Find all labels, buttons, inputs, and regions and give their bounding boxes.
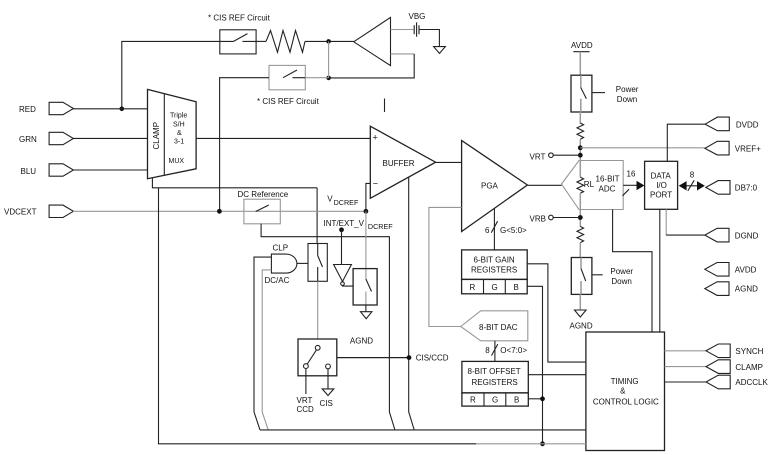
svg-text:O<7:0>: O<7:0>: [500, 346, 527, 355]
ground arrow: AGND (int/ext): [361, 312, 372, 319]
wire: RED to mux: [73, 108, 148, 110]
switch S4 blade: [318, 256, 323, 268]
svg-text:8: 8: [690, 170, 695, 179]
pin tag CLAMP: [706, 360, 730, 374]
register block: 6-BIT GAIN REGISTERS: [462, 250, 528, 280]
wire: R2 to VRT node (gray): [579, 139, 581, 177]
svg-text:DB7:0: DB7:0: [735, 183, 758, 192]
wire: bottom bus A: [260, 429, 586, 431]
svg-text:GRN: GRN: [19, 135, 37, 144]
svg-text:* CIS REF Circuit: * CIS REF Circuit: [257, 97, 320, 106]
inverter U3 (points down): [334, 265, 352, 282]
ground arrow: CIS: [322, 389, 334, 396]
wire: ADC bottom to timing logic: [613, 210, 652, 333]
svg-text:Power: Power: [610, 267, 633, 276]
node: VRT dot: [578, 153, 583, 158]
svg-text:8-BIT DAC: 8-BIT DAC: [479, 323, 518, 332]
wire: node A to node B (gray vertical): [328, 41, 330, 78]
svg-text:B: B: [514, 395, 519, 404]
wire: S2 right lead to node B (gray): [305, 77, 328, 79]
svg-text:16: 16: [627, 169, 636, 178]
svg-text:PORT: PORT: [650, 190, 672, 199]
input pin tag VDCEXT: [49, 205, 73, 217]
wire: VRB circle to chain: [553, 217, 580, 219]
wire: ADCCLK: [665, 381, 707, 383]
wire: ADC output to data port: [623, 184, 637, 186]
svg-text:RED: RED: [19, 105, 36, 114]
block: DATA I/O PORT: [645, 161, 678, 209]
svg-text:DVDD: DVDD: [736, 120, 759, 129]
wire: S1 to resistor R1: [256, 40, 266, 42]
pin tag SYNCH: [706, 344, 730, 358]
node: VRB dot: [578, 215, 583, 220]
wire: VDCEXT through DC ref box (gray): [244, 210, 366, 212]
node: CIS/CCD junction dot: [407, 355, 412, 360]
svg-text:R: R: [470, 283, 476, 292]
svg-text:REGISTERS: REGISTERS: [471, 266, 517, 275]
svg-text:VREF+: VREF+: [735, 144, 761, 153]
register cells R G B (offset): [462, 393, 528, 406]
wire: S5 to AGND arrow: [365, 305, 367, 312]
pin tag DVDD: [705, 117, 729, 131]
svg-text:6-BIT GAIN: 6-BIT GAIN: [474, 256, 515, 265]
switch S8 blade: [581, 269, 586, 282]
bus tick: 8 (DB): [688, 180, 694, 191]
AND gate U4 (CLP gate): [271, 254, 297, 273]
svg-text:TIMING: TIMING: [611, 377, 639, 386]
wire: INT/EXT down to inverter: [341, 230, 343, 265]
svg-text:6: 6: [485, 226, 490, 235]
wire: data port DGND pin (gray drop): [665, 209, 667, 235]
switch S7 control stub: [592, 92, 605, 94]
block: TIMING & CONTROL LOGIC: [586, 332, 665, 451]
svg-text:−: −: [373, 179, 378, 189]
switch S7 blade: [581, 87, 587, 98]
svg-text:BUFFER: BUFFER: [383, 159, 415, 168]
svg-text:AVDD: AVDD: [735, 265, 757, 274]
svg-text:Power: Power: [616, 85, 639, 94]
svg-text:AGND: AGND: [350, 336, 373, 345]
switch S8 box: Power Down (bottom): [571, 258, 592, 295]
switch S7 internals: [580, 75, 582, 112]
node A: junction dot at VBG amp input: [326, 39, 331, 44]
svg-text:DCREF: DCREF: [334, 198, 359, 207]
svg-text:Down: Down: [617, 95, 637, 104]
wire: S6 right terminal to CIS arrow: [327, 369, 329, 389]
bidirectional bus arrow DB7:0: [681, 185, 702, 187]
node: junction dot on RED line: [120, 107, 125, 112]
register block: 8-BIT OFFSET REGISTERS: [462, 361, 528, 393]
node: VREF tap dot: [578, 145, 583, 150]
svg-text:DC Reference: DC Reference: [238, 190, 289, 199]
input pin tag RED: [49, 102, 73, 114]
wire: clamp output long left vertical to bottom bus: [159, 188, 477, 444]
wire: RED tap up to CIS REF switch S1: [122, 41, 220, 108]
wire: offset registers to timing logic: [528, 374, 586, 376]
wire: VDCREF down to int/ext switch S5: [365, 211, 367, 268]
wire: data port to DVDD: [667, 124, 705, 161]
switch S6 left terminal: [304, 364, 309, 369]
battery V1 (VBG source): [414, 22, 419, 36]
wire: CLAMP (gray): [665, 366, 707, 368]
switch S1 box (CIS REF): [220, 30, 256, 54]
svg-text:G: G: [492, 395, 498, 404]
pin tag AVDD (floating): [705, 263, 729, 277]
wire: DC ref output down, right, and down to bottom bus: [261, 224, 395, 430]
op-amp U1 (VBG reference amp, points left): [354, 17, 391, 65]
svg-text:S/H: S/H: [173, 121, 185, 128]
pin tag VREF+: [705, 141, 729, 155]
adc U8: 16-BIT ADC pentagon (gray): [562, 161, 624, 210]
ground arrow: AGND (chain): [575, 310, 587, 317]
wire: U1 bottom feedback stub (gray): [391, 53, 415, 55]
switch S6 blade: [307, 350, 316, 364]
wire: clamp line down to CLP switch: [316, 188, 318, 244]
op-amp U5: BUFFER: [370, 126, 435, 198]
svg-text:RL: RL: [584, 180, 595, 189]
svg-text:* CIS REF Circuit: * CIS REF Circuit: [208, 14, 271, 23]
wire: DAC input from offset registers: [494, 341, 496, 362]
svg-text:INT/EXT_V: INT/EXT_V: [324, 219, 365, 228]
wire: S2 left lead down to VDCEXT node: [220, 78, 269, 212]
wire: PGA gain control from gain registers: [493, 209, 495, 250]
wire: VRT circle to chain: [553, 154, 580, 156]
wire: data port to timing logic: [659, 209, 661, 332]
svg-text:AVDD: AVDD: [571, 41, 593, 50]
svg-text:CIS/CCD: CIS/CCD: [416, 354, 449, 363]
wire: S6 left terminal to VRT CCD: [305, 369, 307, 395]
svg-text:DGND: DGND: [735, 231, 759, 240]
node: VDCREF junction dot: [364, 209, 369, 214]
wire: bottom bus B gray segment: [476, 443, 586, 445]
svg-text:CCD: CCD: [297, 405, 315, 414]
switch S2 blade: [283, 70, 305, 78]
svg-text:ADC: ADC: [599, 185, 616, 194]
switch S2 box (CIS REF, gray): [269, 65, 305, 89]
wire: S7 to resistor R2 (gray): [579, 112, 581, 124]
wire: R3 to power down switch 2 (gray): [579, 243, 581, 258]
wire: AVDD down to power down switch (gray): [579, 52, 581, 75]
wire: S6 output to CIS/CCD node: [337, 357, 409, 359]
pin tag AGND (floating): [705, 282, 729, 296]
svg-text:PGA: PGA: [481, 181, 499, 190]
wire: buffer output to PGA: [436, 161, 462, 163]
bus tick: 8: [492, 344, 498, 356]
switch S4 internals: [317, 244, 319, 282]
svg-text:AGND: AGND: [570, 321, 593, 330]
switch S4 box (CLP switch): [308, 244, 327, 282]
svg-text:BLU: BLU: [21, 167, 37, 176]
svg-text:CLAMP: CLAMP: [152, 122, 161, 150]
terminal circle VRB: [549, 215, 554, 220]
switch S8 control stub: [592, 274, 603, 276]
wire: PGA output to ADC: [527, 184, 561, 186]
svg-text:CLAMP: CLAMP: [735, 363, 763, 372]
svg-text:I/O: I/O: [656, 181, 667, 190]
wire: GRN to mux: [73, 137, 148, 139]
wire: DGND horizontal: [666, 234, 705, 236]
mux U2: Triple S/H 3-1 MUX trapezoid: [148, 89, 197, 178]
wire: R1 to node A: [305, 40, 354, 42]
register cells R G B (gain): [462, 279, 528, 293]
svg-text:VDCEXT: VDCEXT: [4, 207, 37, 216]
wire: DAC feedback path to PGA second input (gray): [429, 207, 462, 326]
switch S1 blade: [220, 34, 256, 42]
terminal circle VRT: [549, 153, 554, 158]
wire: AND top input from bottom bus: [254, 257, 271, 430]
wire: gain B cell down to bottom bus: [527, 286, 542, 444]
wire: VREF+ line to pin tag (gray): [580, 147, 705, 149]
switch S6 common terminal: [315, 345, 320, 350]
svg-text:ADCCLK: ADCCLK: [735, 378, 768, 387]
svg-text:Down: Down: [611, 277, 631, 286]
node B: junction dot below node A: [326, 76, 331, 81]
bus tick: 16: [623, 189, 630, 196]
svg-text:&: &: [177, 130, 182, 137]
node: junction dot on bottom bus: [540, 441, 545, 446]
wire: AND bottom input from bottom bus (gray): [262, 270, 271, 430]
amplifier U6: PGA triangle: [462, 141, 528, 232]
svg-text:Triple: Triple: [170, 113, 187, 120]
wire: inverter to switch S5: [343, 284, 354, 287]
wire: mux output to buffer +: [196, 137, 370, 139]
svg-text:VRT: VRT: [297, 396, 313, 405]
wire: battery to ground: [420, 30, 440, 47]
wire: AND output to switch S4: [297, 262, 308, 264]
wire: VDCEXT to DC Reference (gray): [73, 210, 244, 212]
wire: S4 down to SPDT common (gray): [317, 281, 319, 339]
svg-text:REGISTERS: REGISTERS: [472, 378, 518, 387]
resistor R3 (vertical zigzag): [577, 226, 584, 242]
svg-text:G: G: [492, 283, 498, 292]
svg-text:3-1: 3-1: [174, 139, 184, 146]
wire: gain registers to timing logic: [527, 264, 586, 362]
wire: U1 top output to battery (gray): [391, 29, 414, 31]
resistor R1 (sawtooth): [266, 31, 305, 53]
svg-text:G<5:0>: G<5:0>: [500, 226, 527, 235]
svg-text:CIS: CIS: [320, 399, 333, 408]
wire: BLU to mux: [73, 169, 148, 171]
svg-text:16-BIT: 16-BIT: [596, 175, 620, 184]
switch S8 internals: [580, 258, 582, 295]
svg-text:DATA: DATA: [651, 172, 672, 181]
AVDD terminal bar: [573, 51, 589, 53]
node: junction dot offset B: [540, 396, 545, 401]
resistor R2 (vertical zigzag): [577, 123, 584, 139]
svg-text:SYNCH: SYNCH: [735, 347, 763, 356]
switch S6 box (VRT CCD / CIS selector): [298, 339, 337, 376]
arrowhead into data port: [637, 181, 645, 190]
svg-text:DC/AC: DC/AC: [265, 276, 290, 285]
stray mark: short vertical dash above buffer: [384, 99, 386, 113]
resistor RL (vertical zigzag): [577, 177, 584, 193]
switch S5 blade: [366, 279, 372, 292]
switch S7 box: Power Down (top): [571, 75, 592, 112]
ground symbol (VBG return): [434, 47, 446, 54]
input pin tag GRN: [49, 132, 73, 144]
node: VDCEXT junction dot: [217, 209, 222, 214]
wire: offset B cell to vertical bus: [528, 398, 542, 400]
node: INT/EXT_V dot: [339, 227, 344, 232]
svg-text:+: +: [373, 133, 378, 143]
wire: int/ext switch S5 path: [365, 269, 367, 305]
svg-text:VRT: VRT: [530, 152, 546, 161]
wire: clamp bottom notch: [152, 178, 317, 188]
svg-text:VBG: VBG: [409, 12, 426, 21]
svg-text:B: B: [514, 283, 519, 292]
svg-text:CLP: CLP: [273, 243, 289, 252]
pin tag DB7:0: [706, 181, 730, 195]
pin tag DGND: [705, 228, 729, 242]
switch S3 blade: [256, 205, 269, 212]
svg-text:DCREF: DCREF: [368, 222, 393, 231]
svg-text:8: 8: [485, 346, 490, 355]
svg-text:&: &: [620, 387, 626, 396]
svg-text:V: V: [327, 195, 333, 204]
wire: feedback down and left to node B: [329, 54, 415, 78]
svg-text:VRB: VRB: [530, 215, 546, 224]
svg-text:CONTROL LOGIC: CONTROL LOGIC: [593, 398, 659, 407]
svg-text:R: R: [470, 395, 476, 404]
bus tick: 6: [491, 221, 497, 233]
switch S3 box: DC Reference (gray): [244, 199, 280, 224]
dac U7: 8-BIT DAC pentagon (gray): [461, 311, 528, 341]
switch S5 box (gray through, black box): [353, 269, 377, 305]
input pin tag BLU: [49, 164, 73, 176]
mux clamp divider: [163, 94, 165, 175]
switch S6 right terminal: [326, 364, 331, 369]
wire: RL to VRB node (gray): [579, 193, 581, 226]
wire: S8 to AGND (gray): [579, 294, 581, 310]
svg-text:AGND: AGND: [735, 285, 758, 294]
wire: VDCREF up to buffer minus input: [366, 183, 370, 211]
wire: buffer feedback down to bottom bus: [409, 177, 415, 430]
svg-text:MUX: MUX: [169, 158, 185, 165]
wire: SYNCH (gray): [665, 350, 707, 352]
inverter U3 bubble: [341, 282, 345, 286]
pin tag ADCCLK: [706, 375, 730, 389]
svg-text:8-BIT OFFSET: 8-BIT OFFSET: [468, 367, 521, 376]
